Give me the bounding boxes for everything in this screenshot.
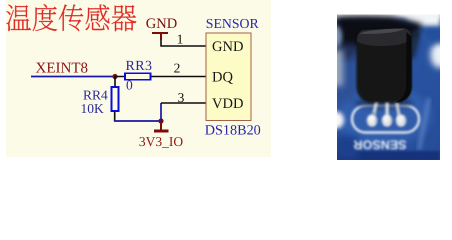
svg-text:1: 1: [177, 32, 184, 47]
svg-text:DQ: DQ: [212, 70, 233, 86]
wire pin3: [161, 102, 206, 104]
svg-text:10K: 10K: [81, 101, 105, 116]
cap top highlight: [359, 29, 405, 34]
dark blurred component top: [336, 16, 422, 62]
gray ghost left edge: [331, 50, 343, 86]
sensor legs: [371, 96, 401, 120]
resistor RR3 pins: [115, 76, 206, 78]
svg-text:2: 2: [174, 61, 181, 76]
white top band: [336, 8, 440, 19]
power port 3V3_IO: [154, 121, 169, 131]
component U1 DS18B20 box: [206, 33, 251, 121]
white blob left edge: [329, 112, 344, 129]
white top right corner: [406, 13, 440, 27]
svg-text:XEINT8: XEINT8: [36, 61, 89, 77]
svg-text:SENSOR: SENSOR: [206, 16, 260, 31]
trace top right: [420, 32, 432, 44]
photo of DS18B20 sensor on PCB: [329, 8, 449, 161]
resistor RR3 body: [125, 73, 151, 80]
body side shading: [395, 32, 412, 103]
svg-text:3V3_IO: 3V3_IO: [139, 134, 183, 149]
wire XEINT8 to junction: [31, 76, 115, 78]
svg-text:VDD: VDD: [212, 96, 243, 112]
blur halo right of package: [410, 30, 421, 58]
resistor RR4 pins: [114, 77, 116, 122]
title 温度传感器: [6, 4, 136, 31]
power port GND bar: [152, 33, 168, 40]
package cap sheen: [357, 28, 411, 46]
svg-text:GND: GND: [212, 39, 243, 55]
faint trace right: [419, 98, 429, 150]
shadow under package: [355, 98, 413, 109]
light streak left edge top: [332, 26, 342, 48]
svg-text:DS18B20: DS18B20: [205, 123, 261, 139]
darker bottom band: [336, 151, 440, 161]
wire pin1 GND: [161, 33, 206, 46]
resistor RR4 body: [111, 87, 118, 111]
white blob right edge: [431, 42, 449, 68]
solder pads: [367, 114, 407, 126]
silkscreen racetrack: [352, 106, 419, 133]
svg-text:0: 0: [126, 78, 133, 93]
light patch around pads: [338, 86, 432, 146]
svg-text:SENSOR: SENSOR: [354, 138, 407, 152]
junction node A: [112, 74, 117, 79]
dark top right pcb corner: [424, 27, 442, 42]
wire riser node B to pin3: [160, 103, 162, 121]
schematic sheet background: [6, 0, 271, 157]
pcb background: [336, 14, 440, 160]
TO-92 package body: [357, 28, 412, 102]
wire RR4 to node B: [115, 119, 161, 121]
svg-text:GND: GND: [146, 16, 177, 32]
svg-text:3: 3: [178, 90, 185, 105]
dark bottom left corner: [334, 136, 358, 160]
svg-text:RR3: RR3: [126, 59, 153, 74]
junction node B: [158, 118, 163, 123]
left strip tint: [336, 44, 356, 102]
